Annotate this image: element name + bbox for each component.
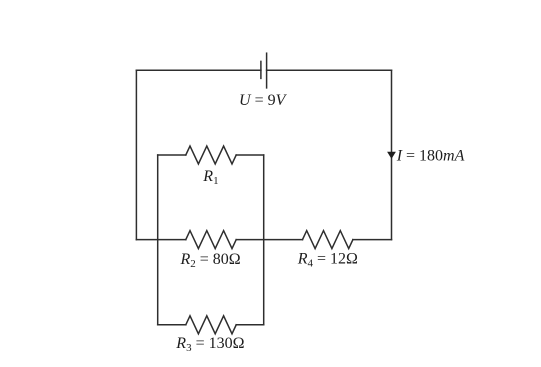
svg-text:R3 = 130Ω: R3 = 130Ω xyxy=(175,335,244,354)
wire inner-right vertical xyxy=(263,155,265,325)
svg-text:R2 = 80Ω: R2 = 80Ω xyxy=(180,251,241,270)
current arrow I xyxy=(387,152,396,159)
wire middle row R4 to right outer xyxy=(353,239,392,241)
wire R1 row right lead xyxy=(236,154,264,156)
resistor R1 zigzag xyxy=(186,146,236,164)
svg-text:R4 = 12Ω: R4 = 12Ω xyxy=(297,251,358,270)
resistor R4 zigzag xyxy=(303,231,353,249)
svg-text:R1: R1 xyxy=(202,168,218,187)
svg-text:I = 180mA: I = 180mA xyxy=(396,148,465,165)
wire R3 row right lead xyxy=(236,324,264,326)
svg-text:U = 9V: U = 9V xyxy=(239,92,288,109)
wire battery to top-right corner xyxy=(267,69,392,71)
wire top-left segment to battery xyxy=(136,69,261,71)
wire left outer vertical xyxy=(135,70,137,239)
wire inner-left vertical xyxy=(157,155,159,325)
wire right outer vertical xyxy=(391,70,393,239)
resistor R2 zigzag xyxy=(186,231,236,249)
wire middle row between R2 and R4 xyxy=(236,239,302,241)
resistor R3 zigzag xyxy=(186,316,236,334)
wire middle row left (node to R2) xyxy=(136,239,185,241)
wire R3 row left lead xyxy=(158,324,186,326)
wire R1 row left lead xyxy=(158,154,186,156)
battery U short plate xyxy=(260,61,262,78)
battery U long plate xyxy=(266,53,268,88)
